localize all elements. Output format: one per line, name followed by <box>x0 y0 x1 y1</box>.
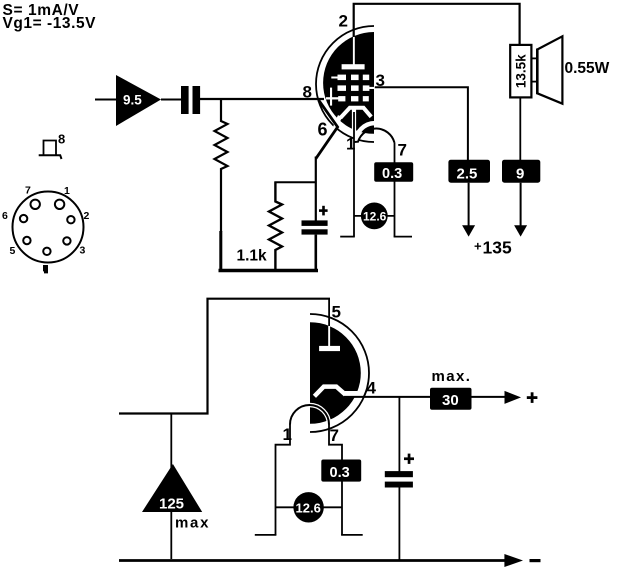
pin6 lead white underlay <box>330 116 340 140</box>
svg-text:4: 4 <box>367 379 377 398</box>
heater arc white underlay <box>290 405 329 424</box>
output current 30 box <box>430 388 472 410</box>
cathode chevron (white) <box>340 108 371 118</box>
anode supply arrow <box>514 183 527 237</box>
base pin 2 <box>67 216 74 223</box>
svg-text:+: + <box>474 239 482 254</box>
svg-text:6: 6 <box>318 120 328 140</box>
svg-text:2: 2 <box>84 210 90 222</box>
heater voltage 12.6 circle (bottom) <box>293 492 323 522</box>
speaker <box>531 36 562 103</box>
tube base bottom view <box>2 185 90 274</box>
screen current 2.5 box <box>448 160 490 183</box>
plus sign output <box>527 392 538 403</box>
heater arc white underlay <box>356 123 395 142</box>
base index mark <box>43 265 48 273</box>
heater connector wire (bottom) <box>276 506 343 508</box>
wire grid (cap to tube pin 8) <box>200 98 324 100</box>
wire heater pin1 (bottom tube) <box>276 425 291 535</box>
wire reservoir cap <box>398 397 400 471</box>
grid g3 row <box>331 75 369 81</box>
svg-text:12.6: 12.6 <box>363 209 387 223</box>
wire pin6 diagonal <box>316 100 338 159</box>
svg-text:13.5k: 13.5k <box>513 54 528 88</box>
svg-text:6: 6 <box>2 210 8 222</box>
input level triangle 9.5 <box>116 75 161 126</box>
svg-text:max.: max. <box>432 368 472 385</box>
svg-text:9.5: 9.5 <box>123 93 142 108</box>
anode plate bar (white) <box>319 346 340 351</box>
heater voltage drop 0.3 box (bottom) <box>321 460 361 482</box>
anode plate bar (white) <box>342 64 365 69</box>
wire cathode vertical <box>315 157 317 221</box>
plus sign of C3 <box>404 454 414 464</box>
wire HT loop bottom circuit <box>119 299 330 414</box>
wire 13.5k to 9 box <box>519 97 521 160</box>
envelope arc <box>316 26 374 142</box>
svg-text:7: 7 <box>330 426 339 445</box>
wire mains vertical <box>170 414 172 560</box>
svg-text:1: 1 <box>283 425 292 444</box>
wire cathode output pin4 <box>344 396 506 398</box>
svg-text:7: 7 <box>398 141 407 160</box>
heater voltage 12.6 circle (top) <box>361 203 388 230</box>
wire pin1 down <box>353 112 355 237</box>
g1 crossing cross (white) <box>326 88 339 106</box>
base pin 3 <box>63 237 70 244</box>
base circle <box>13 192 84 263</box>
svg-text:12.6: 12.6 <box>296 501 321 516</box>
cathode bypass capacitor C2 <box>302 220 328 270</box>
svg-text:2.5: 2.5 <box>457 166 478 183</box>
minus sign <box>530 559 541 562</box>
pin4 lead white underlay <box>345 391 364 396</box>
base pin 6 <box>20 215 27 222</box>
cathode resistor R2 1.1k <box>269 182 282 271</box>
svg-text:1.1k: 1.1k <box>237 248 268 265</box>
base pin 1 <box>55 200 64 209</box>
mains voltage triangle 125 <box>142 464 202 513</box>
grid g1 row <box>338 96 369 101</box>
electrode block (black D) <box>310 322 361 424</box>
output arrow + <box>505 391 522 404</box>
svg-text:1: 1 <box>346 135 355 154</box>
heater arc (pins 1-7) <box>354 129 394 143</box>
coupling capacitor C1 <box>181 86 200 114</box>
svg-text:135: 135 <box>483 238 512 258</box>
reservoir capacitor C3 <box>385 471 413 560</box>
screen supply arrow <box>462 183 475 237</box>
svg-text:8: 8 <box>58 132 65 147</box>
pin1 lead white underlay <box>352 108 356 131</box>
wire heater pin7 (bottom tube) <box>329 425 342 535</box>
label 4 tick <box>364 389 368 398</box>
svg-text:30: 30 <box>442 392 459 409</box>
base pin 4 <box>43 248 50 255</box>
heater voltage drop 0.3 box (top) <box>374 162 413 182</box>
svg-text:max: max <box>175 515 210 532</box>
wire anode pin2 to top <box>354 4 520 46</box>
grid resistor R1 <box>215 99 228 270</box>
svg-text:5: 5 <box>332 303 341 322</box>
stub pin7 bottom <box>341 534 363 536</box>
svg-text:3: 3 <box>80 245 86 257</box>
svg-text:125: 125 <box>159 496 184 513</box>
svg-text:2: 2 <box>339 12 348 31</box>
ground rail bottom circuit <box>119 559 505 562</box>
wire triangle to cap <box>161 99 182 101</box>
ground rail top circuit <box>219 269 319 273</box>
svg-text:9: 9 <box>516 166 524 183</box>
svg-text:0.3: 0.3 <box>330 465 350 481</box>
stub pin1 bottom <box>255 534 277 536</box>
tube V2 rectifier section <box>290 314 369 432</box>
heater connector wire (top) <box>354 215 395 217</box>
svg-text:5: 5 <box>10 245 16 257</box>
pin2 lead inside (white) <box>353 37 355 66</box>
top cap symbol <box>39 141 62 160</box>
svg-text:1: 1 <box>64 185 70 197</box>
anode current 9 box <box>502 160 540 183</box>
ground rail arrow <box>504 554 523 567</box>
envelope arc <box>310 314 369 432</box>
anode load 13.5k box <box>510 45 531 98</box>
cathode chevron (white) <box>314 387 347 397</box>
base pin 5 <box>23 237 30 244</box>
wire pin5 from top <box>328 299 330 326</box>
stub pin7 <box>394 236 412 238</box>
base pin 7 <box>31 200 40 209</box>
plus sign of C2 <box>319 206 328 216</box>
svg-text:8: 8 <box>303 83 312 102</box>
heater arc (pins 1-7) <box>290 405 329 424</box>
grid g2 row <box>338 85 375 91</box>
svg-text:Vg1= -13.5V: Vg1= -13.5V <box>3 15 97 32</box>
svg-text:7: 7 <box>25 185 31 197</box>
wire pin7 down <box>394 143 396 237</box>
wire cathode branch <box>275 181 317 183</box>
svg-text:0.3: 0.3 <box>382 166 402 182</box>
svg-text:0.55W: 0.55W <box>565 60 610 77</box>
wire screen pin3 <box>375 87 468 160</box>
tube V1 pentode section <box>316 26 394 143</box>
pin5 lead inside (white) <box>328 324 330 346</box>
electrode block (black D) <box>323 32 374 134</box>
stub pin1 <box>340 236 355 238</box>
wire input <box>95 99 118 101</box>
